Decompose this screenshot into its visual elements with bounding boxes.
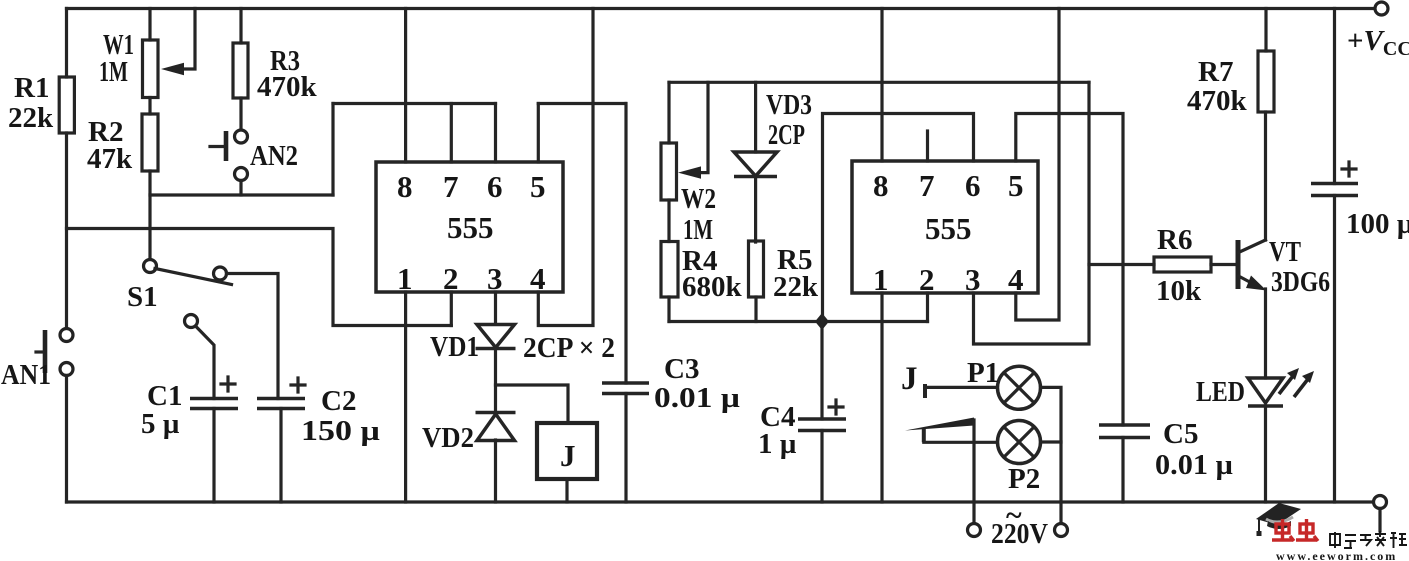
wire U1 pin3 down: [494, 292, 497, 323]
wire W1-R2: [148, 98, 151, 115]
wire R6 right: [1211, 263, 1236, 266]
watermark site text: [1330, 531, 1407, 548]
svg-text:22k: 22k: [773, 271, 819, 303]
svg-text:3DG6: 3DG6: [1271, 266, 1330, 298]
wire S1 to C2: [227, 274, 279, 399]
svg-text:1: 1: [397, 261, 413, 296]
watermark chongchong red: [1272, 519, 1318, 541]
wire R5 bottom: [754, 297, 757, 322]
resistor R7: [1258, 51, 1274, 112]
wire U1 pin6 stub: [494, 104, 497, 163]
wire U1 pin4 reset loop: [538, 9, 593, 326]
resistor R4: [661, 242, 678, 298]
svg-text:4: 4: [1008, 262, 1024, 297]
contact arm P2: [905, 418, 974, 524]
svg-text:J: J: [901, 361, 918, 397]
capacitor C4: [798, 400, 846, 431]
wire VD2 ground: [494, 440, 497, 502]
wire U2 pin6 line: [823, 114, 974, 322]
wire W2 top: [667, 82, 670, 143]
wire R6 left: [1089, 263, 1154, 266]
svg-text:2: 2: [443, 261, 459, 296]
wire collector to R7: [1264, 112, 1267, 240]
wire U2 pin8 to rail: [880, 9, 883, 162]
wire relay branch: [496, 385, 569, 423]
svg-text:5: 5: [1008, 168, 1024, 203]
svg-text:470k: 470k: [1187, 85, 1248, 117]
diode VD1: [476, 325, 516, 349]
svg-text:AN1: AN1: [1, 359, 51, 391]
svg-text:C5: C5: [1163, 418, 1198, 450]
svg-text:220V: 220V: [991, 518, 1048, 550]
terminal +Vcc top right: [1375, 2, 1388, 15]
svg-text:C3: C3: [664, 353, 699, 385]
svg-text:7: 7: [443, 169, 459, 204]
svg-text:0.01 µ: 0.01 µ: [1155, 449, 1233, 481]
wire 100u top: [1333, 9, 1336, 184]
capacitor C1: [190, 377, 238, 409]
svg-text:1: 1: [873, 262, 889, 297]
svg-text:2CP: 2CP: [768, 119, 805, 151]
wire R3-AN2: [239, 98, 242, 130]
svg-text:47k: 47k: [87, 143, 133, 175]
wire VD1-VD2: [494, 349, 497, 412]
wire net 6-7 vertical: [331, 104, 334, 196]
svg-text:5 µ: 5 µ: [141, 408, 180, 440]
wire feedback top line: [669, 81, 1089, 84]
svg-text:4: 4: [530, 261, 546, 296]
svg-text:P1: P1: [967, 357, 999, 389]
svg-text:S1: S1: [127, 281, 158, 313]
resistor R6: [1154, 257, 1211, 272]
svg-text:5: 5: [530, 169, 546, 204]
svg-text:555: 555: [447, 210, 494, 245]
wire U2 pin1 ground: [880, 293, 883, 502]
wire C3 ground: [624, 394, 627, 503]
wire 100u ground: [1333, 196, 1336, 503]
capacitor C3: [602, 383, 649, 394]
LED: [1248, 378, 1283, 406]
wire LED ground: [1264, 406, 1267, 502]
svg-text:150 µ: 150 µ: [301, 415, 380, 447]
potentiometer W2: [661, 82, 708, 200]
svg-text:2CP × 2: 2CP × 2: [523, 332, 615, 364]
svg-text:0.01 µ: 0.01 µ: [654, 382, 740, 414]
wire R4 bottom: [667, 297, 670, 322]
wire C3 drop: [624, 104, 627, 384]
diode VD2: [476, 413, 516, 441]
capacitor C5: [1099, 425, 1150, 438]
wire W2-R4: [667, 200, 670, 242]
wire VD3-R5: [754, 177, 757, 243]
node junction dot: [815, 313, 829, 330]
terminal 220V left: [968, 524, 981, 537]
svg-text:3: 3: [965, 262, 981, 297]
svg-text:VT: VT: [1269, 236, 1301, 268]
wire bottom rail: [67, 500, 1374, 503]
relay J: [537, 423, 597, 479]
resistor R1: [59, 77, 74, 133]
terminal bottom right: [1374, 496, 1387, 532]
wire left rail mid: [65, 133, 68, 329]
relay contact J: [923, 384, 927, 398]
wire U2 pin2 stub: [926, 293, 929, 322]
wire pin5 horizontal: [538, 102, 625, 105]
diode VD3: [734, 82, 777, 176]
svg-text:22k: 22k: [8, 102, 54, 134]
svg-text:R6: R6: [1157, 224, 1192, 256]
svg-text:8: 8: [873, 168, 889, 203]
svg-text:R1: R1: [14, 72, 49, 104]
contact bar P2: [922, 429, 926, 442]
capacitor 100u: [1311, 162, 1358, 196]
svg-text:VD3: VD3: [766, 89, 812, 121]
op-amp U2 555: [852, 161, 1038, 293]
resistor R2: [142, 114, 158, 171]
svg-text:7: 7: [919, 168, 935, 203]
wire C5 ground: [1121, 438, 1124, 503]
svg-text:R7: R7: [1198, 56, 1233, 88]
svg-text:2: 2: [919, 262, 935, 297]
capacitor C2: [257, 378, 305, 409]
wire P1 right: [1041, 387, 1062, 523]
resistor R5: [749, 241, 764, 297]
wire R7 top: [1264, 9, 1267, 52]
wire U2 pin5 line: [1016, 114, 1123, 426]
wire U2 pin7 stub: [926, 131, 929, 161]
wire AN2 bottom: [239, 181, 242, 196]
wire net 6-7 horizontal: [150, 193, 333, 196]
watermark graduation cap: [1256, 503, 1301, 536]
wire C2 ground: [279, 409, 282, 503]
svg-text:8: 8: [397, 169, 413, 204]
wire timing node line: [669, 320, 928, 323]
svg-text:10k: 10k: [1156, 275, 1202, 307]
potentiometer W1: [143, 9, 196, 98]
svg-text:VD2: VD2: [422, 422, 474, 454]
pushbutton AN2: [210, 130, 248, 181]
wire U2 pin3 line: [974, 82, 1090, 344]
wire C1 ground: [212, 409, 215, 503]
wire top rail: [67, 7, 1375, 10]
pushbutton AN1: [36, 329, 73, 376]
wire U1 pin8 to rail: [404, 9, 407, 163]
svg-text:P2: P2: [1008, 463, 1040, 495]
svg-text:6: 6: [965, 168, 981, 203]
wire U1 pin7 stub: [450, 104, 453, 163]
terminal 220V right: [1055, 524, 1068, 537]
svg-text:1 µ: 1 µ: [758, 428, 797, 460]
lamp P2: [998, 421, 1041, 464]
wire U1 pin5 stub: [537, 104, 540, 163]
LED light arrows: [1279, 368, 1314, 397]
svg-text:LED: LED: [1196, 376, 1245, 408]
wire W1 top: [148, 9, 151, 41]
svg-text:6: 6: [487, 169, 503, 204]
wire P2 right: [1041, 440, 1062, 443]
svg-text:100 µ: 100 µ: [1346, 208, 1409, 240]
wire C4 drop: [820, 322, 823, 420]
svg-text:470k: 470k: [257, 71, 318, 103]
op-amp U1 555: [376, 162, 563, 292]
wire C4 ground: [820, 431, 823, 503]
svg-text:1M: 1M: [683, 214, 713, 246]
wire U1 pin2 stub: [450, 292, 453, 326]
svg-text:W2: W2: [681, 183, 716, 215]
svg-text:AN2: AN2: [250, 140, 298, 172]
svg-text:www.eeworm.com: www.eeworm.com: [1276, 549, 1397, 561]
svg-text:680k: 680k: [682, 271, 743, 303]
switch S1 lower contact: [185, 315, 215, 399]
resistor R3: [233, 43, 248, 98]
svg-text:C2: C2: [321, 385, 356, 417]
switch S1: [144, 260, 232, 285]
wire U1 pin1 ground: [404, 292, 407, 502]
wire pins 6-7 top line: [333, 102, 496, 105]
wire emitter to LED: [1264, 289, 1267, 378]
wire trigger line from left rail: [67, 229, 452, 326]
wire R3 top: [239, 9, 242, 44]
svg-text:3: 3: [487, 261, 503, 296]
wire U2 pin4 reset: [1016, 9, 1059, 321]
svg-text:J: J: [560, 438, 576, 473]
svg-text:VD1: VD1: [430, 331, 479, 363]
wire J ground: [565, 479, 568, 502]
svg-text:555: 555: [925, 211, 972, 246]
lamp P1: [998, 366, 1041, 409]
transistor VT: [1238, 240, 1267, 291]
wire R2-S1: [148, 171, 151, 260]
svg-text:1M: 1M: [99, 56, 128, 88]
wire left rail upper: [65, 9, 68, 78]
wire left rail lower: [65, 376, 68, 503]
